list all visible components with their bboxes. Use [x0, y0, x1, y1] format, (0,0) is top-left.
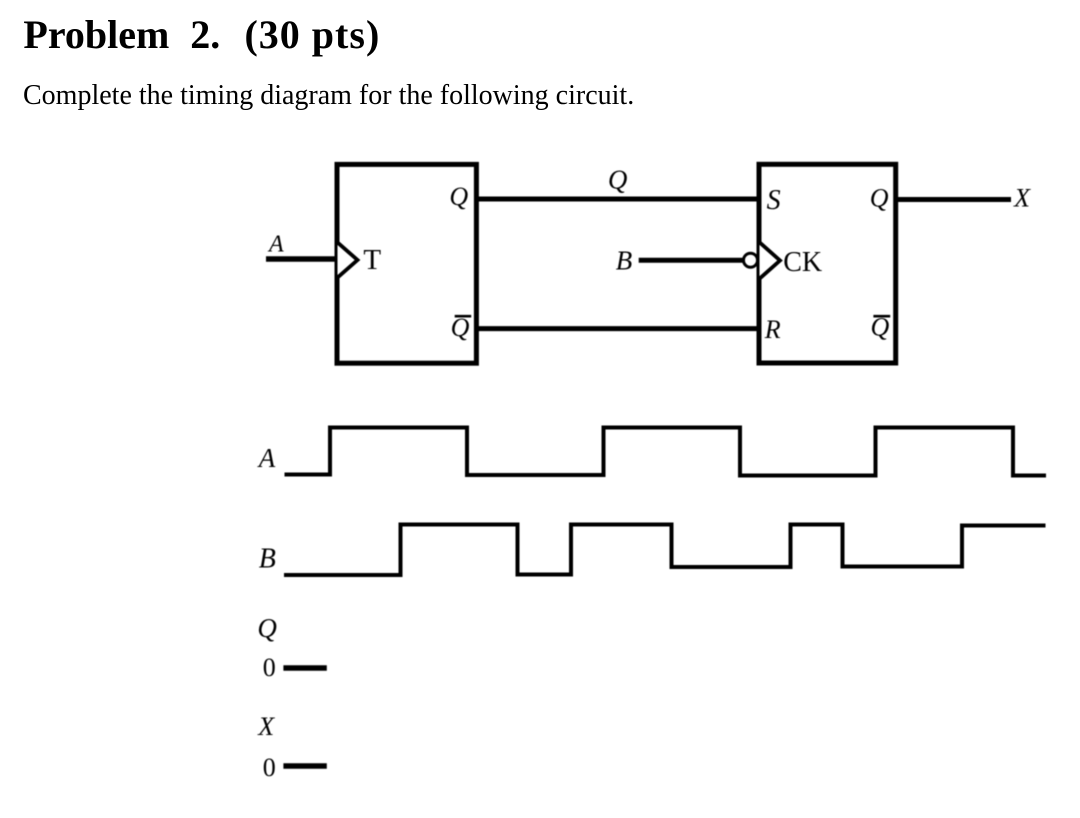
- svg-text:0: 0: [263, 653, 276, 682]
- clock edge triangle on U2: [760, 242, 781, 278]
- svg-text:0: 0: [263, 753, 276, 782]
- wire A input: [266, 256, 337, 262]
- label Qbar (U2 output): [871, 313, 891, 342]
- svg-text:Q: Q: [608, 164, 628, 194]
- svg-text:B: B: [616, 246, 633, 276]
- title: [23, 15, 380, 55]
- svg-text:B: B: [259, 544, 276, 575]
- T flip-flop U1 box: [337, 164, 476, 363]
- waveform A: [285, 428, 1047, 476]
- svg-text:Q: Q: [449, 182, 468, 211]
- Q initial level tick: [283, 665, 326, 671]
- svg-text:A: A: [257, 443, 276, 473]
- svg-text:T: T: [363, 244, 381, 276]
- negation bubble on U2 clock: [744, 253, 758, 267]
- svg-text:X: X: [257, 712, 275, 741]
- X initial level tick: [283, 763, 326, 769]
- wire B to clock bubble: [639, 258, 744, 263]
- clock edge triangle on U1: [338, 242, 358, 277]
- label Qbar (U1 output): [451, 313, 472, 342]
- svg-text:S: S: [767, 185, 781, 216]
- svg-text:X: X: [1013, 184, 1031, 213]
- svg-text:CK: CK: [783, 247, 822, 278]
- wire X output: [896, 197, 1011, 202]
- waveform B: [284, 525, 1046, 576]
- svg-text:A: A: [267, 232, 284, 258]
- svg-text:R: R: [764, 315, 781, 344]
- wire Q to S: [477, 197, 760, 202]
- svg-text:Q: Q: [870, 184, 889, 213]
- svg-text:Q: Q: [257, 613, 277, 643]
- body text: [23, 82, 634, 110]
- wire Qbar to R: [477, 326, 760, 331]
- SR flip-flop U2 box: [759, 164, 896, 363]
